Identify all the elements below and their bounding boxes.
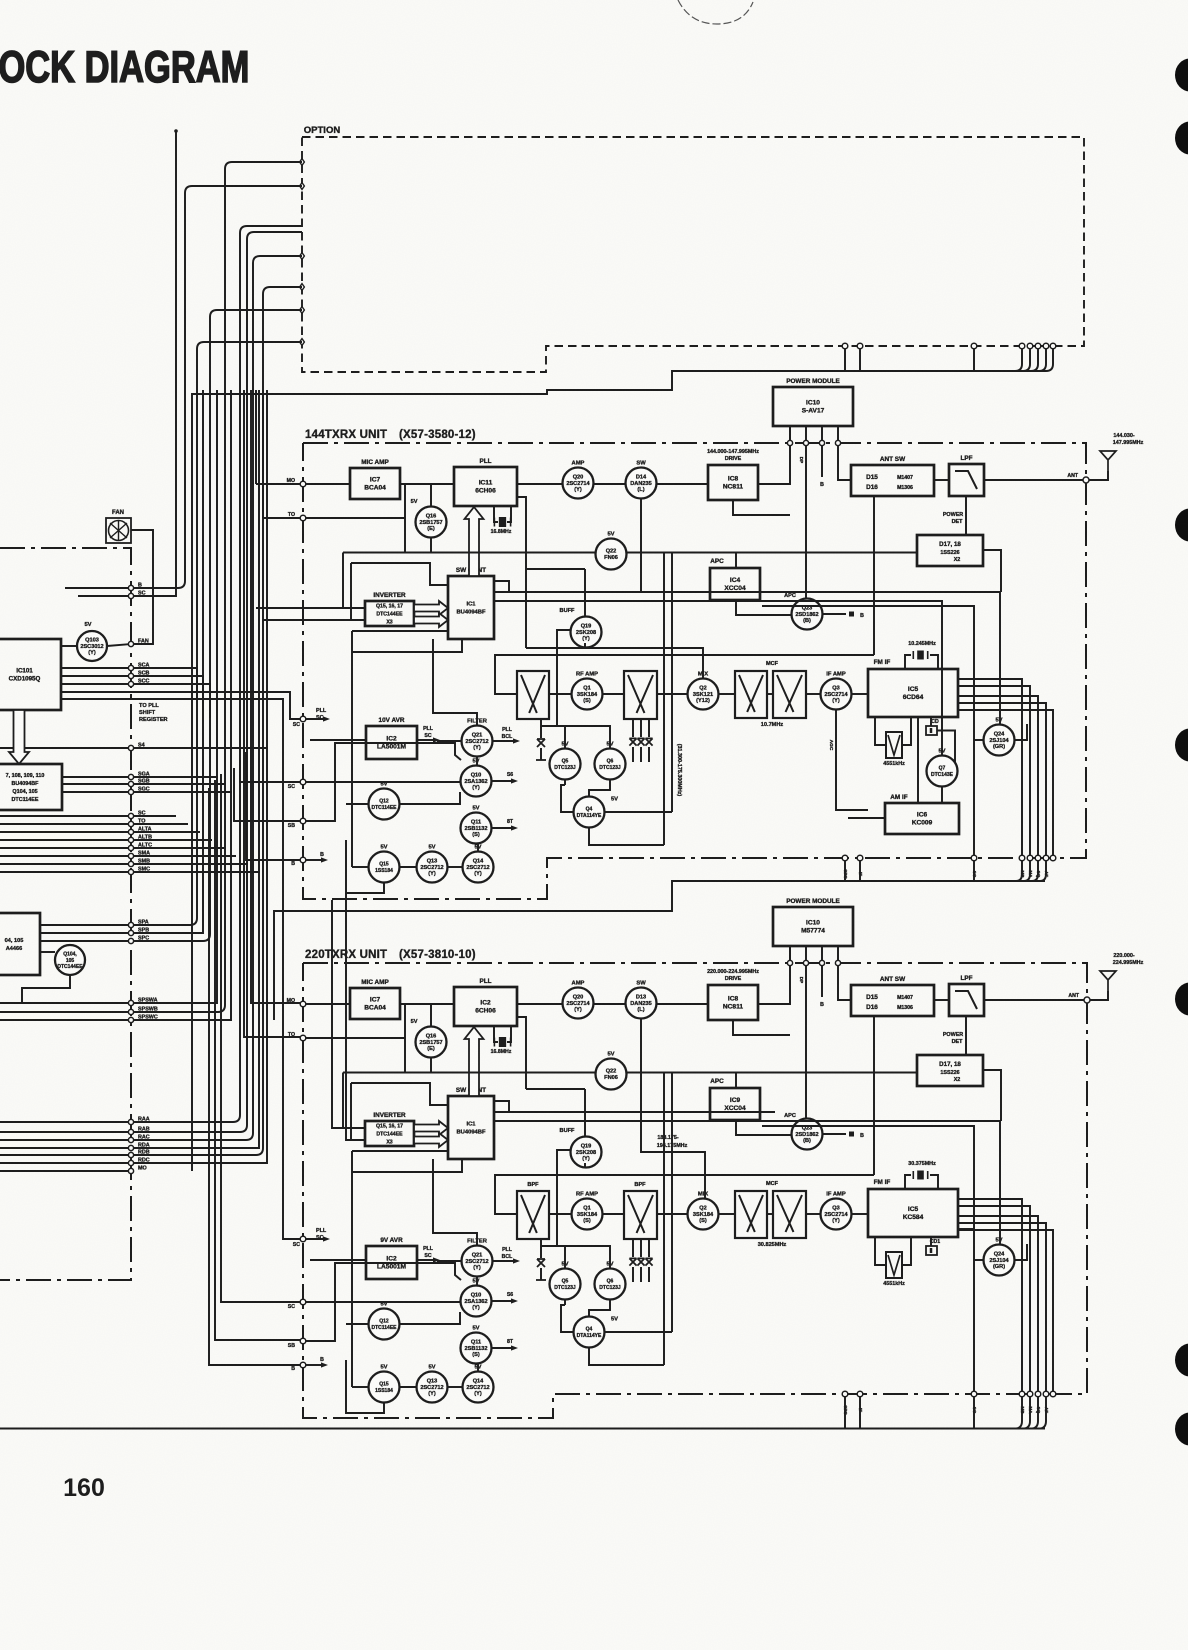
144TXRX wire MO to MIC AMP [306, 483, 350, 485]
144TXRX wire filter to IC5 [902, 717, 911, 745]
144TXRX wires into INVERTER [256, 607, 365, 609]
220TXRX block LPF [949, 984, 984, 1016]
220TXRX block arrow IC1 to PLL [465, 1027, 484, 1096]
220TXRX transistor Q22 [596, 1059, 627, 1090]
220TXRX terminal ANT [1084, 997, 1090, 1003]
220TXRX Q23 stub B [823, 1133, 846, 1135]
144TXRX terminal SC [300, 779, 306, 785]
220TXRX wire IC10 pin to D15 ANT SW [838, 966, 851, 1000]
220TXRX SW CONT IC1 [448, 1096, 494, 1159]
144TXRX wire Q12 left [346, 803, 368, 805]
144TXRX wire APC block to Q23 [736, 600, 791, 615]
144TXRX transistor Q4 [574, 797, 605, 828]
220TXRX wire BPF1 to Q1 [549, 1213, 571, 1215]
144TXRX wire Q5 Q6 tops [541, 726, 610, 748]
144TXRX IC1 right outputs [494, 581, 509, 592]
144TXRX wire BPF1 to Q1 [549, 693, 571, 695]
220TXRX terminal SC [300, 1299, 306, 1305]
220TXRX block IC8 drive [708, 985, 758, 1020]
220TXRX wire MCF to Q3 [806, 1213, 820, 1215]
wire into option box y226 [131, 226, 302, 1122]
220TXRX wire Q5 Q6 tops [541, 1246, 610, 1268]
220TXRX terminal PLL SC [300, 1236, 306, 1242]
220TXRX wire D15 down to RX line [873, 1016, 875, 1175]
220TXRX block MIC AMP IC7 [350, 988, 400, 1019]
144TXRX wire VCO elbow to Q19 top [526, 568, 585, 570]
220TXRX power module IC10 [773, 907, 853, 946]
220TXRX wire Q24 sides [974, 1259, 983, 1261]
144TXRX injection line to mixer [526, 648, 703, 678]
220TXRX transistor Q4 [574, 1317, 605, 1348]
144TXRX buffer Q19 [571, 617, 602, 648]
block Q107-110 shift register (cut) [0, 764, 62, 810]
220TXRX FM IF block IC5 [868, 1189, 958, 1237]
wire SGA SGB SGC runs [62, 776, 218, 778]
144TXRX wire into Q21 [437, 740, 461, 742]
wire IC101 to Q103 [61, 645, 77, 647]
220TXRX wire PLL to Q20 [517, 1003, 562, 1005]
220TXRX wire D14 to IC8 [657, 1003, 708, 1005]
220TXRX terminal TO [300, 1035, 306, 1041]
riser x=203 SPB [131, 390, 203, 933]
wire option bottom terminal drops to common bus [844, 349, 846, 371]
220TXRX wire D17 right hook [983, 1070, 1001, 1121]
220TXRX wire IC8 out up to IC10 [758, 946, 790, 1004]
144TXRX transistor Q12 [369, 789, 400, 820]
220TXRX wire IC10 pin down to APC Q23 [805, 966, 807, 1118]
144TXRX wire riser x672 [671, 553, 673, 813]
144TXRX monolithic crystal filter MCF [735, 671, 767, 718]
220TXRX transistor Q10 [461, 1286, 492, 1317]
144TXRX wire Q16 top to mic line [430, 484, 432, 507]
220TXRX buffer Q19 [571, 1137, 602, 1168]
220TXRX wire IC1 bottom to Q21 loop [433, 1159, 477, 1245]
220TXRX block arrows INVERTER to IC1 [414, 1121, 448, 1135]
220TXRX wire APC feedback from boundary [762, 1126, 974, 1394]
wire bus vertical feeding 144 TO [262, 390, 264, 518]
wire option diamond y186 to riser x=185 [131, 186, 302, 588]
144TXRX block arrow IC1 to PLL [465, 507, 484, 576]
wire SCA long run to PLL SC terminals [61, 692, 302, 719]
144TXRX IC10 pins to boundary [789, 426, 791, 443]
144TXRX block arrows INVERTER to IC1 [414, 601, 448, 615]
144TXRX wire TO line with drop [306, 517, 405, 519]
144TXRX ceramic filter 455kHz [875, 717, 886, 745]
144TXRX wire Q19 top riser [584, 569, 586, 617]
144TXRX VCO riser [517, 497, 526, 648]
144TXRX wire IC1 bottom to Q21 loop [433, 639, 477, 725]
144TXRX wire PLL line down the middle [663, 553, 665, 846]
220TXRX transistor Q6 [595, 1269, 626, 1300]
220TXRX ceramic discriminator CD [930, 1237, 932, 1246]
220TXRX injection line to mixer [641, 1019, 705, 1198]
144TXRX wire into regulator [310, 739, 366, 741]
220TXRX amplifier Q20 [563, 988, 594, 1019]
144TXRX block IC8 drive [708, 465, 758, 500]
220TXRX wire MO to MIC AMP [306, 1003, 350, 1005]
wire B SC runs at control unit top [65, 587, 131, 589]
144TXRX RX feed line [495, 655, 874, 694]
wire RAA RAB RAC RDA RDB RDC MO from page edge [0, 1121, 131, 1123]
220TXRX INVERTER Q15,16,17 [365, 1121, 414, 1146]
wire option diamond y287 to riser x=263 [131, 287, 302, 1155]
220TXRX wire Q1 to BPF2 [603, 1213, 624, 1215]
220TXRX terminal MO [300, 1001, 306, 1007]
220TXRX wire LPF to ANT terminal [984, 999, 1087, 1001]
144TXRX wire Q5 Q6 bottoms to Q4 [564, 779, 566, 785]
220TXRX wire riser x672 [671, 1073, 673, 1333]
144TXRX wire Q1 to BPF2 [603, 693, 624, 695]
220TXRX wire Q19 left elbow [557, 1150, 570, 1246]
220TXRX block PLL IC2 [454, 987, 517, 1026]
144TXRX transistor Q5 [550, 749, 581, 780]
144TXRX transistor Q7 [927, 756, 958, 787]
220TXRX BPF2 trimmer legs [632, 1239, 634, 1257]
144TXRX transistor Q24 [984, 725, 1015, 756]
144TXRX terminal SB [300, 818, 306, 824]
wire option diamond y310 to riser x=210 [131, 310, 302, 941]
144TXRX wire IC1 bottom left elbow [352, 639, 462, 652]
144TXRX power detector D17 18 [917, 535, 983, 566]
144TXRX block MIC AMP IC7 [350, 468, 400, 499]
144TXRX regulator block IC2 10V AVR [366, 726, 417, 759]
144TXRX transistor Q16 [416, 507, 447, 538]
wire bus vertical feeding 220 MO [251, 390, 302, 1003]
block Q104,105 driver (cut) [0, 913, 40, 975]
220TXRX wire Q19 top riser [584, 1089, 586, 1137]
wire into option box y232 [131, 232, 302, 1132]
220TXRX IC10 pins to boundary [789, 946, 791, 963]
220TXRX transistor Q24 [984, 1245, 1015, 1276]
wire S4 run [131, 747, 268, 749]
144TXRX wire SC line to Q10 [306, 781, 460, 783]
220TXRX wire Q5 Q6 bottoms to Q4 [564, 1299, 566, 1305]
220TXRX VCO riser [517, 1017, 526, 1089]
220TXRX wire BPF2 to Q2 [657, 1213, 687, 1215]
220TXRX RX feed line [495, 1175, 874, 1214]
220TXRX bottom boundary terminals [842, 1391, 848, 1397]
144TXRX BPF2 trimmer legs [632, 719, 634, 737]
220TXRX band pass filter BPF2 [624, 1191, 657, 1239]
144TXRX AGC line Q3 [836, 710, 868, 810]
144TXRX wire ANT SW to LPF [934, 479, 949, 481]
144TXRX wire BPF2 to Q2 [657, 693, 687, 695]
220TXRX transistor Q14 [463, 1372, 494, 1403]
220TXRX wire Q22 line to D17 left with APC drop [627, 1072, 917, 1074]
144TXRX IF amplifier Q3 [821, 679, 852, 710]
144TXRX transistor Q11 [461, 813, 492, 844]
220TXRX wire Q16 bottom to switch line [430, 1058, 432, 1073]
220TXRX APC transistor Q23 [792, 1119, 823, 1150]
220TXRX band pass filter BPF1 [517, 1191, 549, 1239]
220TXRX wire switch line elbow to inverter [342, 1073, 344, 1129]
wire S4 SGA from page edge [0, 747, 131, 749]
144TXRX wire inner elbow to IC1 [351, 563, 447, 585]
144TXRX band pass filter BPF2 [624, 671, 657, 719]
220TXRX terminal SB [300, 1338, 306, 1344]
144TXRX terminal PLL SC [300, 716, 306, 722]
wire SC SB runs into 144 unit [240, 760, 302, 782]
220TXRX IC10 pin stub B [821, 966, 823, 997]
transistor Q104,105 [55, 945, 85, 975]
node top of riser x=176 [174, 129, 178, 133]
block IC101 CXD1095Q (cut) [0, 639, 61, 710]
144TXRX wire IC5 to AM IF [917, 717, 919, 803]
144TXRX wire PLL to Q20 [517, 483, 562, 485]
144TXRX IC5 outputs to bottom terminals [958, 679, 1022, 858]
144TXRX filter transistor Q21 [462, 726, 493, 757]
option connector diamonds on left edge [300, 159, 305, 166]
144TXRX wire Q16 bottom to switch line [430, 538, 432, 553]
block arrow IC101 down [9, 710, 29, 764]
144TXRX switching diode D14 [626, 468, 657, 499]
144TXRX wire D15 down to RX line [873, 496, 875, 655]
144TXRX wire MIC AMP to PLL [400, 483, 454, 485]
144TXRX transistor Q6 [595, 749, 626, 780]
144TXRX wire Q19 bottom to injection line [584, 643, 586, 648]
144TXRX wire SB elbow to Q5 Q6 [306, 743, 461, 821]
riser x=217 SPSWA [131, 390, 217, 1003]
144TXRX wire LPF to ANT terminal [984, 479, 1086, 481]
144TXRX wire Q22 line to D17 left with APC drop [627, 552, 917, 554]
144TXRX bottom boundary terminals [842, 855, 848, 861]
144TXRX wire LPF down to D17 [965, 496, 967, 535]
144TXRX IC10 pin stub B [821, 446, 823, 477]
220TXRX monolithic crystal filter MCF [735, 1191, 767, 1238]
220TXRX wire IC8 bottom loop [733, 1020, 790, 1035]
wire drops 220 terminals to collector [844, 1397, 846, 1428]
144TXRX transistor Q14 [463, 852, 494, 883]
220TXRX wire APC block to Q23 [736, 1120, 791, 1135]
220TXRX regulator block IC2 9V AVR [366, 1246, 417, 1279]
144TXRX band pass filter BPF1 [517, 671, 549, 719]
144TXRX APC transistor Q23 [792, 599, 823, 630]
220TXRX wire SC line to Q10 [306, 1301, 460, 1303]
220TXRX wires bottom transistor row [399, 1386, 416, 1388]
220TXRX terminal B [300, 1362, 306, 1368]
144TXRX AM IF block IC6 [885, 803, 959, 834]
144TXRX wire D14 to IC8 [657, 483, 708, 485]
144TXRX wire IC8 bottom loop [733, 500, 790, 515]
144TXRX terminal ANT [1083, 477, 1089, 483]
binding hole marks right edge [1175, 59, 1188, 92]
144TXRX wire Q21 to Q10 [476, 757, 478, 765]
144TXRX AM IF stub [848, 817, 885, 819]
220TXRX APC block IC4 [710, 1088, 760, 1120]
144TXRX wire Q24 sides [974, 739, 983, 741]
220TXRX ceramic filter 455kHz [875, 1237, 886, 1265]
220TXRX wire ANT SW to LPF [934, 999, 949, 1001]
144TXRX wire APC feedback from boundary [762, 606, 974, 858]
144TXRX wire D14 riser [640, 499, 642, 592]
OPTION box (dashed) [302, 137, 1084, 372]
220TXRX wire VCO elbow to Q19 top [526, 1088, 585, 1090]
220TXRX transistor Q13 [417, 1372, 448, 1403]
144TXRX transistor Q15 switch [369, 852, 400, 883]
220TXRX mixer Q2 [688, 1199, 719, 1230]
220TXRX BPF1 trap diode [540, 1239, 542, 1258]
wire SPSWA SPSWB SPSWC from page edge [0, 1002, 131, 1004]
144TXRX antenna [1089, 471, 1108, 480]
wire SC SB runs into 220 unit [221, 774, 302, 1302]
220TXRX transistor Q5 [550, 1269, 581, 1300]
option terminals on bottom edge [842, 343, 848, 349]
144TXRX wire D17 right hook [983, 550, 1001, 592]
220TXRX wire Q12 left [346, 1323, 368, 1325]
wire SCA SCB SCC from IC101 [61, 668, 197, 700]
220TXRX unit boundary (dash-dot) [303, 963, 1087, 1418]
144TXRX amplifier Q20 [563, 468, 594, 499]
220TXRX filter transistor Q21 [462, 1246, 493, 1277]
220TXRX wire IC1 bottom left elbow [352, 1159, 462, 1172]
144TXRX RF amplifier Q1 [572, 679, 603, 710]
220TXRX RF amplifier Q1 [572, 1199, 603, 1230]
220TXRX IC5 outputs to bottom terminals [958, 1199, 1022, 1394]
220TXRX crystal 16.8MHz [494, 1026, 498, 1042]
220TXRX IF amplifier Q3 [821, 1199, 852, 1230]
144TXRX wire Q12 to Q10 [400, 792, 460, 804]
144TXRX wires bottom transistor row [399, 866, 416, 868]
144TXRX Q23 stub B [823, 613, 846, 615]
riser x=259 RDA [131, 390, 259, 1148]
wire drops 144 terminals to collector [844, 861, 846, 881]
220TXRX wire TO line with drop [306, 1037, 405, 1039]
220TXRX transistor Q16 [416, 1027, 447, 1058]
220TXRX wire Q2 to MCF [719, 1213, 735, 1215]
144TXRX wire MCF to Q3 [806, 693, 820, 695]
wire Q103 to FAN terminal [107, 644, 131, 646]
144TXRX wire Q7 to AM IF [941, 787, 943, 803]
wire SC TO ALTA ALTB ALTC SMA SMB SMC runs [0, 815, 176, 817]
wire Q104 elbows [40, 951, 55, 953]
144TXRX wire CD to Q7 chain [937, 731, 958, 772]
220TXRX transistor Q15 switch [369, 1372, 400, 1403]
220TXRX switching diode D14 [626, 988, 657, 1019]
wire option diamond y256 to riser x=253 [131, 256, 302, 1140]
144TXRX block ANT SW D15 D16 [851, 465, 934, 496]
144TXRX terminal B [300, 857, 306, 863]
control unit boundary (dash-dot) [0, 548, 131, 1280]
220TXRX wire into regulator [310, 1259, 366, 1261]
220TXRX block ANT SW D15 D16 [851, 985, 934, 1016]
220TXRX wire Q12 to Q10 [400, 1312, 460, 1324]
144TXRX terminal TO [300, 515, 306, 521]
fan symbol [106, 518, 131, 543]
144TXRX wire Q20 to D14 [594, 483, 625, 485]
riser x=231 SPSWC [131, 390, 231, 1020]
144TXRX BPF1 trap diode [540, 719, 542, 738]
wire bus vertical feeding 144 MO [255, 390, 257, 484]
144TXRX power module IC10 [773, 387, 853, 426]
220TXRX wire Q19 bottom to injection line [584, 1163, 586, 1168]
control unit terminal labels [128, 585, 133, 590]
144TXRX INVERTER Q15,16,17 [365, 601, 414, 626]
220TXRX wire IC5 right pin to riser [958, 1228, 974, 1230]
144TXRX crystal 10.245MHz [905, 655, 911, 669]
144TXRX transistor Q10 [461, 766, 492, 797]
144TXRX wire Q4 connections [561, 785, 573, 812]
wire common bus from option box to left riser [192, 371, 1046, 1171]
220TXRX transistor Q12 [369, 1309, 400, 1340]
144TXRX transistor Q13 [417, 852, 448, 883]
220TXRX wire to Q22 [343, 1072, 595, 1074]
220TXRX wire PLL line down the middle [663, 1073, 665, 1366]
144TXRX ceramic discriminator CD [930, 717, 932, 726]
144TXRX wire IC10 pin down to APC Q23 [805, 446, 807, 598]
wire option diamond y162 to riser x=225 [131, 162, 302, 1012]
144TXRX wire to Q22 [343, 552, 595, 554]
144TXRX FM IF block IC5 [868, 669, 958, 717]
220TXRX wire SB elbow to Q5 Q6 [306, 1263, 461, 1341]
220TXRX wire Q20 to D14 [594, 1003, 625, 1005]
220TXRX wire filter to IC5 [902, 1237, 911, 1265]
144TXRX mixer Q2 [688, 679, 719, 710]
220TXRX power detector D17 18 [917, 1055, 983, 1086]
144TXRX block LPF [949, 464, 984, 496]
144TXRX wire switch line elbow to inverter [342, 553, 344, 609]
wire 144 bottom collector [274, 881, 1045, 1020]
220TXRX wire Q16 top to mic line [430, 1004, 432, 1027]
220TXRX wire Q21 to Q10 [476, 1277, 478, 1285]
144TXRX transistor Q22 [596, 539, 627, 570]
220TXRX antenna [1090, 991, 1108, 1000]
144TXRX wire Q2 to MCF [719, 693, 735, 695]
144TXRX crystal 16.8MHz [494, 506, 498, 522]
220TXRX wire MIC AMP to PLL [400, 1003, 454, 1005]
transistor Q103 [77, 631, 107, 661]
220TXRX wire into Q21 [437, 1260, 461, 1262]
220TXRX wire Q3 to IC5 [852, 1213, 868, 1215]
144TXRX wire Q19 left elbow [557, 630, 570, 726]
220TXRX wire LPF down to D17 [965, 1016, 967, 1055]
220TXRX wire Q4 connections [561, 1305, 573, 1332]
220TXRX wire inner elbow to IC1 [351, 1083, 447, 1105]
144TXRX block PLL IC11 [454, 467, 517, 506]
144TXRX wire IC10 pin to D15 ANT SW [838, 446, 851, 480]
wire 220 bottom collector [0, 1428, 1045, 1430]
riser x=267 RDC [131, 390, 267, 1163]
220TXRX crystal 30.375MHz [905, 1175, 911, 1189]
wire riser x=176 [131, 131, 176, 596]
wire SPA SPB SPC from block [40, 924, 131, 926]
144TXRX terminal MO [300, 481, 306, 487]
wire inner verticals feeding 220 inverter [332, 900, 365, 1128]
scan artifact arc top centre [678, 0, 753, 24]
220TXRX wires into INVERTER [352, 1150, 448, 1152]
wire fan to FAN terminal [131, 530, 153, 644]
wire option diamond y342 to riser x=197 [131, 342, 302, 925]
220TXRX IC1 right outputs [494, 1101, 509, 1112]
wire bus vertical feeding 220 TO [244, 390, 302, 1037]
144TXRX unit boundary (dash-dot) [303, 443, 1086, 899]
144TXRX SW CONT IC1 [448, 576, 494, 639]
144TXRX wire IC8 out up to IC10 [758, 426, 790, 484]
220TXRX transistor Q11 [461, 1333, 492, 1364]
144TXRX APC block IC4 [710, 568, 760, 600]
144TXRX wire Q3 to IC5 [852, 693, 868, 695]
